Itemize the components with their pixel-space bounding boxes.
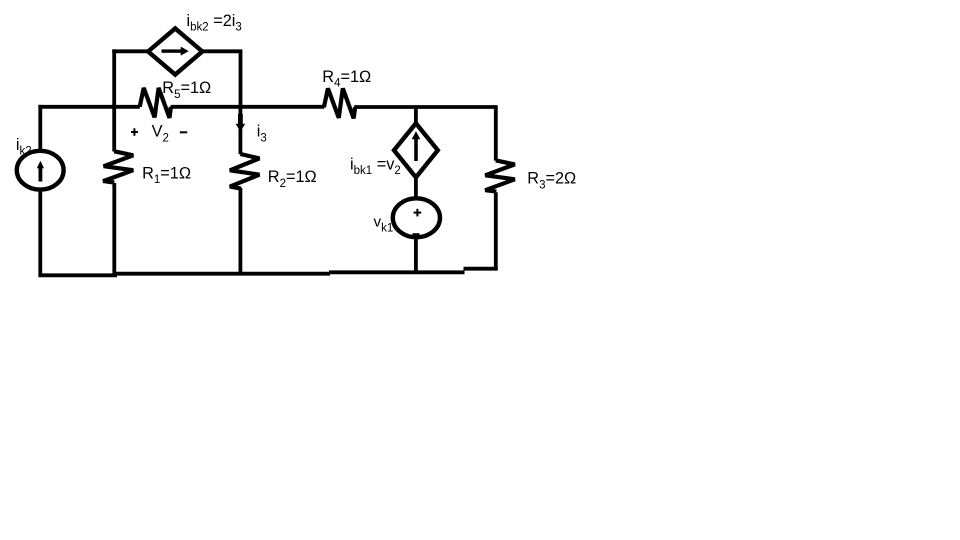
wire loop top-left horizontal (112, 49, 150, 53)
wire R1 branch upper (112, 107, 116, 152)
wire top bus left segment (node between ik2 and R5) (38, 105, 139, 109)
svg-text:R1=1Ω: R1=1Ω (142, 164, 191, 186)
wire below vk1 (414, 237, 418, 272)
svg-text:R2=1Ω: R2=1Ω (268, 168, 317, 190)
wire R1 branch lower (112, 183, 116, 274)
wire bottom rail segment 4 (464, 267, 498, 271)
svg-text:R5=1Ω: R5=1Ω (162, 79, 211, 101)
current source ik2 (circle) (17, 151, 64, 190)
resistor R5 (horizontal zigzag) (140, 88, 171, 118)
wire loop left vertical (to dependent source ibk2) (112, 49, 116, 106)
dependent current source ibk2 (diamond) (148, 28, 202, 74)
resistor R1 (vertical zigzag) (103, 151, 133, 182)
wire R2 branch upper (carries i3) (238, 107, 242, 154)
wire loop top-right horizontal (201, 49, 243, 53)
wire R2 branch lower (238, 188, 242, 274)
wire top bus middle segment (R5 right to R4 left) (171, 105, 325, 109)
wire ibk1 branch top (414, 107, 418, 125)
plus sign of V2 polarity (131, 128, 138, 136)
ibk2 arrow (points right) (162, 47, 189, 56)
voltage source vk1 (ellipse) (393, 198, 440, 237)
current source ik2 arrow (37, 161, 44, 182)
svg-text:V2: V2 (152, 122, 169, 144)
vk1 minus sign (413, 233, 420, 235)
dependent current source ibk1 (diamond) (394, 123, 438, 177)
wire R3 branch upper (494, 107, 498, 161)
svg-text:ibk2 =2i3: ibk2 =2i3 (187, 12, 242, 34)
svg-text:ibk1 =v2: ibk1 =v2 (350, 155, 401, 177)
svg-text:vk1: vk1 (374, 214, 394, 235)
resistor R4 (horizontal zigzag) (324, 88, 355, 118)
wire between ibk1 and vk1 (414, 177, 418, 199)
svg-text:R3=2Ω: R3=2Ω (527, 170, 576, 192)
svg-text:R4=1Ω: R4=1Ω (322, 68, 371, 90)
wire bottom rail segment 1 (38, 273, 117, 277)
svg-text:i3: i3 (257, 122, 267, 144)
wire left source branch lower (38, 189, 42, 275)
wire R3 branch lower (494, 192, 498, 270)
wire top bus right segment (R4 right to top-right corner) (354, 105, 498, 109)
wire left source branch upper (38, 105, 42, 152)
resistor R2 (vertical zigzag) (230, 154, 260, 189)
ibk1 arrow (points up) (412, 131, 421, 161)
minus sign of V2 polarity (180, 131, 187, 133)
wire bottom rail segment 2 (115, 272, 330, 276)
resistor R3 (vertical zigzag) (485, 160, 515, 191)
arrow i3 on R2 branch (points down) (236, 114, 246, 132)
wire bottom rail segment 3 (329, 270, 465, 274)
vk1 plus sign (414, 209, 422, 217)
svg-text:ik2: ik2 (16, 136, 32, 158)
wire loop right vertical (239, 51, 243, 107)
